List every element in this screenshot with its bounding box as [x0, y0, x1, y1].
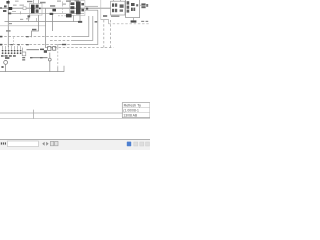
transistor Q1: [4, 61, 8, 65]
wire dashed region bottom: [46, 47, 114, 49]
wire U4 top stub 1: [113, 0, 115, 1]
status icon gray 3: [146, 142, 150, 146]
label dark segment: [40, 49, 44, 51]
label dash mid: [62, 44, 66, 45]
status bar: [0, 139, 150, 150]
nav button prev: [42, 142, 44, 146]
wire U3 right net 2: [85, 9, 98, 11]
label U1 refdes: [27, 1, 32, 2]
label net dash 3: [10, 44, 12, 45]
wire secondary horizontal net: [11, 13, 84, 15]
wire dashed region vertical 2: [110, 20, 112, 48]
wire U3 bottom pin 2: [79, 15, 81, 21]
ground symbol: [131, 20, 137, 22]
status input box: [7, 141, 38, 147]
status icon gray 1: [134, 142, 138, 146]
IC U1: [30, 4, 43, 16]
resistor R4 on wire: [23, 7, 26, 10]
node open circle: [48, 58, 51, 61]
label dash u5 b: [146, 21, 149, 22]
label smudge e: [57, 1, 61, 2]
label J2: [1, 55, 4, 57]
wire stub dashes right of J1: [12, 10, 16, 12]
wire stub up 1: [57, 67, 59, 72]
wire R2 down: [49, 53, 51, 59]
wire tick: [20, 11, 22, 14]
svg-text:13/08 AB: 13/08 AB: [123, 114, 138, 118]
wire vertical light: [100, 0, 102, 20]
wire second lower horizontal net: [0, 25, 46, 27]
label smudge g: [0, 7, 2, 9]
wire stub up 2: [63, 66, 65, 72]
svg-text:Refresh Ty: Refresh Ty: [124, 103, 142, 107]
nav button page 1: [50, 141, 53, 145]
label dash right: [103, 15, 107, 17]
wire R1 down: [28, 18, 30, 22]
label smudge a: [13, 5, 17, 6]
svg-text:(1.00/08-1: (1.00/08-1: [123, 109, 139, 113]
wire corner small: [58, 44, 62, 47]
status text: [1, 142, 6, 144]
wire dashed drop: [57, 48, 59, 67]
label smudge f: [62, 4, 66, 5]
label U1 value: [40, 2, 46, 4]
ground pad blob: [78, 21, 82, 23]
wire U1 bottom jog: [32, 15, 39, 37]
wire Q1 down: [5, 64, 7, 71]
capacitor C3 blob: [44, 50, 47, 53]
wire dashed vertical short: [13, 37, 15, 44]
label smudge d: [9, 23, 12, 24]
wire U5 right: [140, 4, 142, 6]
wire dashed vertical: [62, 2, 64, 14]
box small right of J2: [22, 48, 26, 61]
wire long lower horizontal net: [5, 21, 81, 23]
label net name: [32, 29, 36, 31]
box power region fragment: [101, 20, 109, 24]
IC U4: [111, 1, 125, 15]
label dash u5 a: [141, 21, 144, 22]
nav button page 2: [55, 141, 58, 145]
label Q1: [1, 66, 3, 68]
label J2 name: [5, 57, 9, 59]
label U3 value: [75, 0, 80, 1]
wire U1 top pins: [33, 0, 35, 4]
connector J1: [3, 1, 12, 14]
node tick mid: [95, 21, 98, 23]
label smudge i: [26, 18, 29, 19]
connector J2: [2, 46, 22, 54]
resistor R2: [48, 47, 51, 51]
label net dash 4: [17, 44, 19, 45]
label smudge c: [15, 1, 19, 2]
IC U5: [126, 0, 140, 18]
wire vertical at 45: [44, 8, 46, 48]
sheet border inner line: [0, 112, 150, 114]
wire U4 top stub 2: [120, 0, 122, 1]
wire U3 bottom pin: [73, 15, 75, 21]
label text row 1: [27, 49, 40, 50]
nav button next: [46, 142, 48, 146]
wire dashed bottom right: [109, 23, 151, 25]
label net name small: [6, 30, 11, 31]
label text row 2: [30, 57, 48, 58]
label smudge h: [20, 19, 23, 20]
wire bottom horizontal net: [0, 71, 64, 73]
title block: [122, 103, 150, 118]
resistor R3: [53, 47, 56, 51]
wire vertical net left: [7, 0, 9, 47]
label net left edge 1: [0, 36, 2, 38]
wire nested net corner 2: [50, 39, 72, 41]
resistor R1: [28, 15, 31, 17]
sheet border outer line: [0, 118, 150, 120]
capacitor C1: [141, 3, 148, 8]
wire node down: [49, 61, 51, 72]
IC U2: [50, 5, 56, 15]
border zone tick: [33, 110, 35, 119]
status icon active blue: [127, 142, 131, 147]
wire U5 bottom stub: [132, 18, 134, 21]
label smudge b: [20, 5, 25, 6]
label U4 pins: [111, 16, 119, 17]
node junction: [86, 8, 88, 10]
label net dash 2: [26, 44, 29, 45]
wire vertical at 52: [52, 15, 54, 31]
wire tick mid: [36, 18, 38, 22]
wire nested net corner 3: [0, 44, 72, 46]
wire U3 right net: [85, 5, 98, 7]
wire main horizontal net: [0, 7, 111, 9]
IC U3: [70, 1, 85, 16]
wire nested net corner 1: [0, 36, 72, 38]
label net dash 1: [26, 36, 29, 37]
status icon gray 2: [140, 142, 144, 146]
label net left edge 2: [0, 44, 2, 46]
wire dashed stub: [58, 15, 72, 17]
label U3 refdes: [66, 0, 71, 1]
wire dashed region vertical 1: [103, 20, 105, 48]
wire U1 top pin 2: [38, 0, 40, 4]
capacitor C2 cluster: [66, 14, 72, 17]
